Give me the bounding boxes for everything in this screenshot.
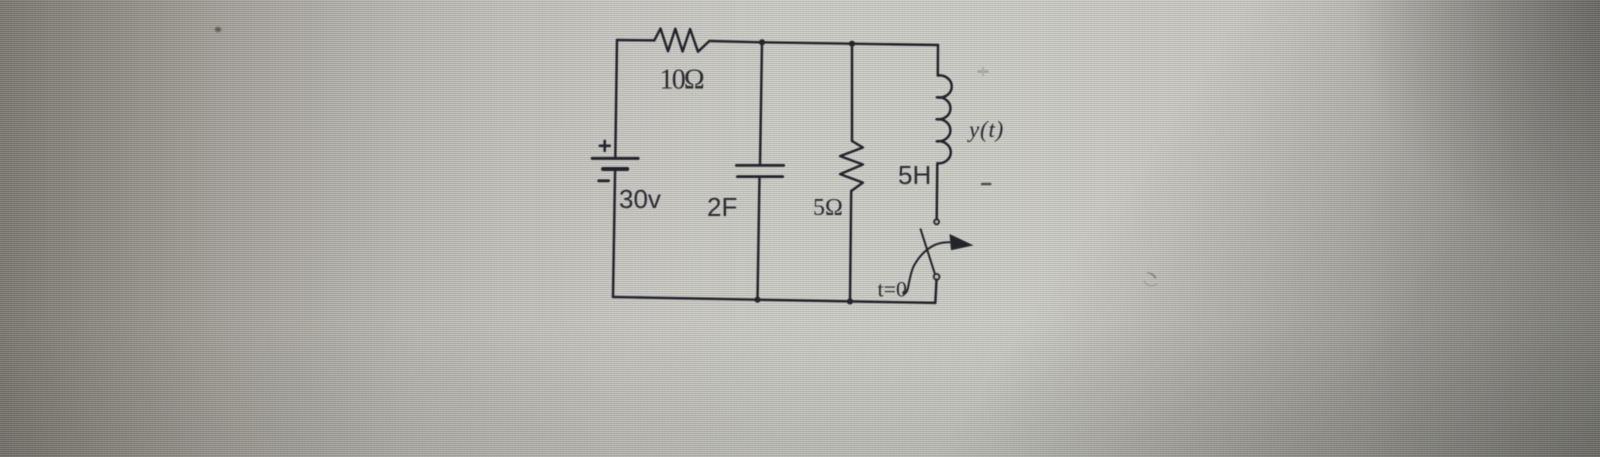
output minus mark — [982, 183, 990, 186]
junction node B resistor5 top — [849, 41, 855, 47]
capacitor C1 2F (plates) — [736, 164, 783, 167]
wire node B to R2 — [851, 44, 853, 141]
battery V1 30v (plates) — [592, 157, 638, 160]
wire node A to node B — [762, 42, 852, 43]
battery V1 plus sign — [600, 141, 610, 151]
svg-text:t=0: t=0 — [878, 277, 908, 302]
wire R1 to node A — [709, 41, 762, 42]
battery V1 minus sign — [599, 179, 609, 182]
screen blemish dot — [214, 26, 223, 33]
resistor R1 10ohm — [654, 29, 709, 52]
wire bottom right — [850, 301, 935, 303]
junction node C capacitor bottom — [754, 297, 760, 303]
resistor R2 5ohm — [840, 141, 863, 191]
wire node A to C1 — [760, 42, 762, 165]
svg-text:5Ω: 5Ω — [813, 195, 843, 221]
wire left side lower — [613, 169, 615, 297]
switch SW1 closing-action arrow arc — [903, 242, 949, 293]
inductor L1 5H — [937, 75, 952, 163]
wire R2 to node D — [850, 191, 851, 301]
screen smudge mark — [1146, 272, 1157, 278]
junction node D resistor5 bottom — [847, 298, 853, 304]
svg-text:5H: 5H — [898, 160, 931, 190]
wire C1 to node C — [758, 177, 760, 300]
svg-text:2F: 2F — [707, 192, 737, 222]
switch SW1 arrowhead — [950, 234, 974, 250]
switch SW1 blade — [921, 229, 935, 274]
switch SW1 top terminal — [934, 219, 939, 224]
switch SW1 bottom terminal — [934, 274, 940, 280]
svg-text:y(t): y(t) — [967, 117, 1004, 142]
junction node A capacitor top — [759, 39, 765, 45]
wire top-right corner to L1 — [937, 45, 940, 76]
wire bottom middle — [758, 300, 851, 302]
wire L1 to switch SW1 — [935, 163, 938, 219]
wire top-left to resistor — [617, 39, 654, 42]
wire left side upper — [615, 40, 617, 158]
wire SW1 to bottom-right corner — [935, 280, 936, 303]
svg-text:30v: 30v — [619, 184, 661, 214]
wire bottom left — [613, 297, 758, 300]
wire node B to top-right corner — [852, 44, 938, 45]
svg-text:10Ω: 10Ω — [660, 65, 704, 96]
output plus mark (faint) — [978, 70, 989, 72]
